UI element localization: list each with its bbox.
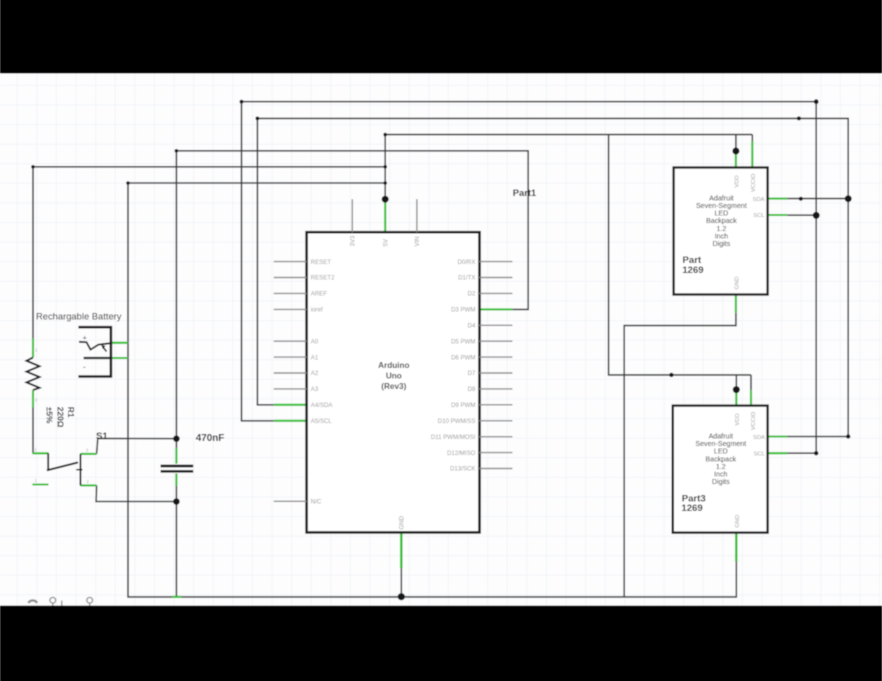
node Part1 VDD dot (732, 148, 739, 155)
node Part3 bus bend dot (669, 373, 673, 377)
battery charge arrow (103, 347, 107, 352)
wire Part3 SDA (788, 436, 849, 438)
pin S1-2 green (80, 453, 96, 455)
pin battery plus green (111, 342, 128, 344)
svg-text:D2: D2 (468, 291, 476, 298)
letterbox top bar (0, 0, 882, 74)
svg-text:A1: A1 (311, 354, 319, 361)
pin 3V3 stub (351, 199, 353, 232)
label Adafruit block U3 (695, 433, 746, 487)
pin VIN stub (416, 199, 418, 232)
svg-text:GND: GND (735, 515, 741, 528)
svg-text:D8: D8 (468, 386, 476, 393)
svg-text:N/C: N/C (311, 499, 322, 506)
pin D4 stub (480, 324, 513, 326)
svg-text:GND: GND (399, 515, 406, 529)
pin RESET stub (274, 261, 307, 263)
svg-text:RESET2: RESET2 (311, 275, 335, 282)
label Part 1269 (682, 255, 703, 276)
svg-text:Uno: Uno (386, 372, 402, 381)
battery spring contact (79, 342, 111, 350)
wire resistor-top to 5V (33, 166, 385, 168)
resistor R1 (27, 358, 40, 391)
wire Part1 GND to bus (624, 313, 736, 597)
pin Part1 SDA green (768, 198, 788, 200)
seven-segment U3 (Part3 1269) body (673, 406, 768, 533)
pin A4/SDA green (274, 404, 307, 406)
pin capacitor top green (175, 448, 177, 464)
node 5V riser corner nub (383, 133, 387, 137)
node 5V/battery T nub (383, 181, 387, 185)
pin D8 stub (480, 388, 513, 390)
svg-text:D4: D4 (468, 323, 476, 330)
node cap top junction (173, 435, 180, 442)
node gnd bus junction (398, 593, 405, 600)
node cap-bottom bus tick (172, 596, 182, 598)
battery charge arrowhead (101, 345, 105, 349)
wire A5/SCL to bus (242, 102, 817, 454)
svg-text:GND: GND (734, 277, 740, 290)
pin Part1 GND green (735, 294, 737, 313)
node A5 wire corner nub (240, 100, 244, 104)
svg-text:Part1: Part1 (513, 187, 536, 198)
pin capacitor bottom green (175, 474, 177, 487)
node A4 wire corner nub (256, 117, 260, 121)
wire cap-top junction to plate (175, 439, 177, 449)
wire Part1 SDA (787, 198, 848, 200)
svg-text:VCCIO: VCCIO (751, 173, 757, 192)
S1 right bar (79, 454, 81, 486)
node Part3 SCL corner dot (814, 451, 818, 455)
node battery-wire corner nub (126, 181, 130, 185)
pin Part3 GND green (735, 533, 737, 562)
label pin marks S1 (35, 447, 90, 484)
svg-text:Rechargable Battery: Rechargable Battery (36, 311, 122, 322)
pin Part3 SDA green (768, 435, 788, 437)
wire A4/SDA to bus (257, 118, 848, 436)
svg-text:(Rev3): (Rev3) (381, 382, 406, 391)
pin D1/TX stub (480, 277, 513, 279)
battery minus plate (84, 357, 111, 359)
pin S1-3 green (32, 483, 48, 485)
pin 5V green (384, 199, 386, 232)
svg-text:D13/SCK: D13/SCK (450, 466, 475, 473)
pin A5/SCL green (274, 420, 307, 422)
wire D3 to capacitor-top net (176, 151, 528, 439)
S1 left pole bar (47, 453, 49, 469)
pin A2 stub (274, 372, 307, 374)
wire 5V vertical riser (384, 135, 386, 200)
pin D9 stub (480, 404, 513, 406)
label Adafruit block U2 (696, 194, 747, 248)
wire Part1 SCL (787, 214, 816, 216)
seven-segment U2 (Part 1269) body (674, 168, 768, 295)
svg-text:S1: S1 (96, 431, 108, 442)
pin N/C stub (274, 500, 307, 502)
svg-text:5V: 5V (382, 238, 389, 246)
svg-text:A4/SDA: A4/SDA (311, 402, 334, 409)
pin A0 stub (274, 340, 307, 342)
pin resistor bottom green (32, 390, 34, 408)
pin D10 stub (480, 420, 513, 422)
wire Part1 VCCIO stub (751, 135, 753, 141)
svg-text:D12/MISO: D12/MISO (447, 450, 476, 457)
svg-text:A3: A3 (311, 386, 319, 393)
S1 right tick (76, 469, 82, 471)
pin D13 stub (480, 468, 513, 470)
pin battery minus green (111, 357, 128, 359)
pin A3 stub (274, 388, 307, 390)
svg-text:D5 PWM: D5 PWM (451, 338, 475, 345)
svg-text:VIN: VIN (414, 236, 421, 246)
svg-text:D10 PWM/SS: D10 PWM/SS (438, 418, 476, 425)
pin D12 stub (480, 452, 513, 454)
svg-text:RESET: RESET (311, 259, 332, 266)
pin RESET2 stub (274, 277, 307, 279)
svg-text:3V3: 3V3 (350, 235, 357, 246)
svg-text:1269: 1269 (682, 265, 703, 276)
pin AREF stub (274, 292, 307, 294)
wire 5V branch to Part3 (609, 135, 751, 375)
wire S1 pin4 drop (96, 485, 176, 501)
pin D5 stub (480, 340, 513, 342)
pin D6 stub (480, 356, 513, 358)
svg-text:SCL: SCL (754, 451, 766, 457)
pin Part1 VCCIO green (751, 141, 753, 168)
node Part1 SDA bend dot (799, 197, 803, 201)
pin Part3 SCL green (768, 452, 788, 454)
svg-text:D11 PWM/MOSI: D11 PWM/MOSI (431, 434, 476, 441)
C1 plate top (161, 465, 194, 468)
node SDA bend dot (797, 116, 801, 120)
pin ioref stub (274, 308, 307, 310)
node SDA bus dot (845, 195, 852, 202)
pin D2 stub (480, 292, 513, 294)
svg-text:VCCIO: VCCIO (751, 411, 757, 430)
svg-text:A5/SCL: A5/SCL (311, 418, 333, 425)
C1 plate bottom (161, 470, 194, 473)
pin Part3 VCCIO green (750, 390, 752, 405)
svg-text:+: + (83, 333, 88, 342)
capacitor C1 (161, 466, 194, 471)
bottom clipped labels (29, 597, 93, 606)
wire Arduino GND drop (400, 568, 402, 597)
svg-text:D7: D7 (468, 370, 476, 377)
battery B1 (78, 327, 111, 376)
svg-text:D1/TX: D1/TX (458, 275, 475, 282)
wire battery-plus to 5V (128, 182, 385, 184)
svg-text:SDA: SDA (753, 435, 765, 441)
wire resistor lead bottom (32, 408, 34, 454)
svg-text:ioref: ioref (311, 307, 323, 314)
svg-text:D0/RX: D0/RX (457, 259, 475, 266)
node resistor-wire corner nub (31, 165, 35, 169)
svg-text:-: - (83, 362, 86, 372)
node SCL corner dot (814, 99, 819, 104)
svg-text:Digits: Digits (712, 478, 730, 486)
wire Part3 SCL (788, 452, 817, 454)
wire S1 pin2 riser (97, 439, 98, 454)
pin S1-1 green (32, 452, 48, 454)
node cap bottom junction (173, 498, 180, 505)
node Part3 SDA corner dot (846, 434, 850, 438)
node 5V/resistor T nub (383, 165, 387, 169)
node 5V junction (382, 196, 389, 203)
wire resistor lead top (32, 167, 34, 339)
svg-text:SDA: SDA (753, 197, 765, 203)
node Part3 VDD dot (733, 386, 740, 393)
pin Part3 VDD green (735, 390, 737, 406)
pin S1-4 green (80, 484, 96, 486)
S1 lever (47, 462, 78, 470)
label right pins (431, 259, 476, 473)
label Arduino Uno (Rev3) (378, 361, 409, 391)
svg-text:AREF: AREF (311, 291, 328, 298)
letterbox bottom bar (0, 606, 882, 681)
svg-text:D9 PWM: D9 PWM (451, 402, 475, 409)
svg-text:A2: A2 (311, 370, 319, 377)
svg-text:470nF: 470nF (196, 433, 225, 444)
svg-text:VDD: VDD (734, 175, 740, 187)
wire cap-bottom to gnd bus (175, 486, 177, 597)
svg-text:A0: A0 (311, 338, 319, 345)
label Part3 1269 (681, 493, 705, 514)
pin Arduino GND green (400, 532, 403, 568)
wire S1 to cap junction (98, 437, 177, 439)
node SCL bus dot (813, 212, 820, 219)
svg-text:1269: 1269 (681, 503, 702, 514)
pin D3 green (480, 308, 513, 310)
Arduino Uno U1 body (307, 232, 480, 532)
wire Part3 VCCIO stub (750, 375, 752, 390)
wire 5V horizontal bus (385, 134, 752, 136)
pin Part1 SCL green (768, 214, 788, 216)
green connected-pin segments (32, 141, 787, 597)
wire Part1 VDD stub (735, 135, 737, 151)
switch S1 (47, 453, 83, 485)
pin resistor top green (32, 339, 34, 358)
wire Part3 VDD stub (735, 375, 737, 390)
pin D7 stub (480, 372, 513, 374)
svg-text:Arduino: Arduino (378, 361, 409, 370)
node D3-wire corner nub (175, 149, 179, 153)
svg-text:D3 PWM: D3 PWM (451, 307, 475, 314)
pin D11 stub (480, 436, 513, 438)
pin D0/RX stub (480, 261, 513, 263)
svg-text:VDD: VDD (735, 413, 741, 425)
pin A1 stub (274, 356, 307, 358)
svg-text:Digits: Digits (713, 240, 731, 248)
svg-text:SCL: SCL (753, 213, 765, 219)
wire battery-plus riser (127, 183, 129, 343)
pin Part1 VDD green (735, 151, 737, 168)
battery outer bracket (78, 327, 111, 376)
svg-text:D6 PWM: D6 PWM (451, 354, 475, 361)
wire battery-minus drop + gnd bus (128, 343, 736, 597)
